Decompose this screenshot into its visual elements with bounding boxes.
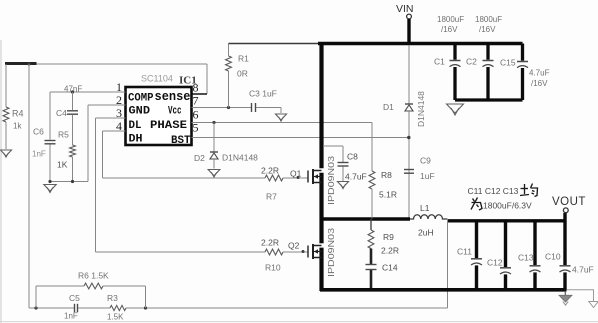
- svg-text:C8: C8: [347, 152, 358, 162]
- svg-text:1800uF: 1800uF: [437, 15, 464, 24]
- svg-text:R9: R9: [383, 232, 394, 242]
- svg-text:DL: DL: [129, 120, 142, 132]
- svg-text:VIN: VIN: [396, 3, 414, 15]
- svg-text:C3 1uF: C3 1uF: [249, 89, 277, 99]
- svg-text:1800uF: 1800uF: [475, 15, 502, 24]
- svg-text:C11: C11: [457, 247, 472, 257]
- svg-text:2.2R: 2.2R: [261, 166, 279, 176]
- svg-text:BST: BST: [171, 135, 191, 147]
- svg-text:PHASE: PHASE: [150, 120, 187, 132]
- svg-text:C10: C10: [545, 252, 561, 262]
- svg-text:6: 6: [193, 108, 199, 122]
- svg-text:GND: GND: [129, 106, 151, 118]
- svg-text:R10: R10: [265, 263, 281, 273]
- svg-text:2: 2: [116, 93, 122, 107]
- svg-text:D1: D1: [383, 102, 394, 112]
- svg-text:R8: R8: [381, 170, 392, 180]
- svg-text:D2: D2: [194, 153, 205, 163]
- svg-text:C4: C4: [56, 108, 67, 118]
- svg-text:SC1104: SC1104: [141, 74, 173, 84]
- svg-text:C13: C13: [518, 253, 534, 263]
- svg-text:1nF: 1nF: [64, 312, 78, 321]
- svg-text:C14: C14: [382, 263, 398, 273]
- svg-text:C9: C9: [420, 156, 431, 166]
- svg-text:4.7uF: 4.7uF: [529, 69, 550, 78]
- svg-text:C11 C12 C13: C11 C12 C13: [468, 186, 519, 196]
- svg-text:D1N4148: D1N4148: [416, 91, 426, 127]
- svg-text:C2: C2: [466, 57, 477, 67]
- svg-text:Q1: Q1: [290, 169, 302, 179]
- svg-text:8: 8: [193, 81, 199, 95]
- svg-text:1: 1: [116, 80, 122, 94]
- svg-text:2.2R: 2.2R: [261, 238, 279, 248]
- svg-text:2.2R: 2.2R: [381, 246, 399, 256]
- svg-text:R1: R1: [238, 54, 249, 64]
- svg-text:4: 4: [116, 119, 122, 133]
- svg-text:7: 7: [193, 94, 199, 108]
- svg-text:2uH: 2uH: [418, 228, 434, 238]
- svg-text:R5: R5: [58, 130, 69, 140]
- svg-text:IPD09N03: IPD09N03: [327, 227, 336, 277]
- svg-text:/16V: /16V: [479, 25, 496, 34]
- svg-text:4.7uF: 4.7uF: [345, 172, 367, 182]
- svg-text:C6: C6: [33, 127, 44, 137]
- svg-text:R6 1.5K: R6 1.5K: [78, 271, 109, 281]
- svg-text:5.1R: 5.1R: [379, 190, 397, 200]
- svg-text:C1: C1: [434, 57, 445, 67]
- svg-text:/16V: /16V: [531, 79, 548, 88]
- svg-text:4.7uF: 4.7uF: [572, 265, 594, 275]
- svg-text:D1N4148: D1N4148: [222, 153, 258, 163]
- svg-text:1.5K: 1.5K: [107, 313, 124, 322]
- svg-text:IPD09N03: IPD09N03: [327, 155, 336, 205]
- svg-text:DH: DH: [129, 134, 143, 146]
- svg-text:VOUT: VOUT: [552, 196, 586, 208]
- svg-text:1nF: 1nF: [32, 150, 46, 159]
- svg-text:Q2: Q2: [288, 241, 300, 251]
- svg-text:1k: 1k: [13, 122, 22, 131]
- svg-text:5: 5: [193, 121, 199, 135]
- svg-text:R3: R3: [107, 293, 118, 303]
- svg-text:sense: sense: [155, 89, 191, 104]
- svg-text:Vcc: Vcc: [168, 106, 182, 118]
- svg-text:/16V: /16V: [441, 25, 458, 34]
- svg-text:R4: R4: [12, 109, 24, 119]
- svg-text:L1: L1: [420, 203, 430, 213]
- svg-text:R7: R7: [266, 192, 277, 202]
- svg-text:1800uF/6.3V: 1800uF/6.3V: [483, 201, 532, 211]
- svg-text:C15: C15: [500, 58, 516, 68]
- svg-text:C12: C12: [487, 258, 503, 268]
- svg-text:1K: 1K: [57, 160, 68, 170]
- svg-text:3: 3: [116, 106, 122, 120]
- svg-text:C5: C5: [69, 293, 80, 303]
- svg-text:0R: 0R: [237, 69, 248, 79]
- svg-text:COMP: COMP: [128, 93, 154, 105]
- svg-text:47nF: 47nF: [64, 85, 82, 94]
- svg-text:1uF: 1uF: [420, 171, 435, 181]
